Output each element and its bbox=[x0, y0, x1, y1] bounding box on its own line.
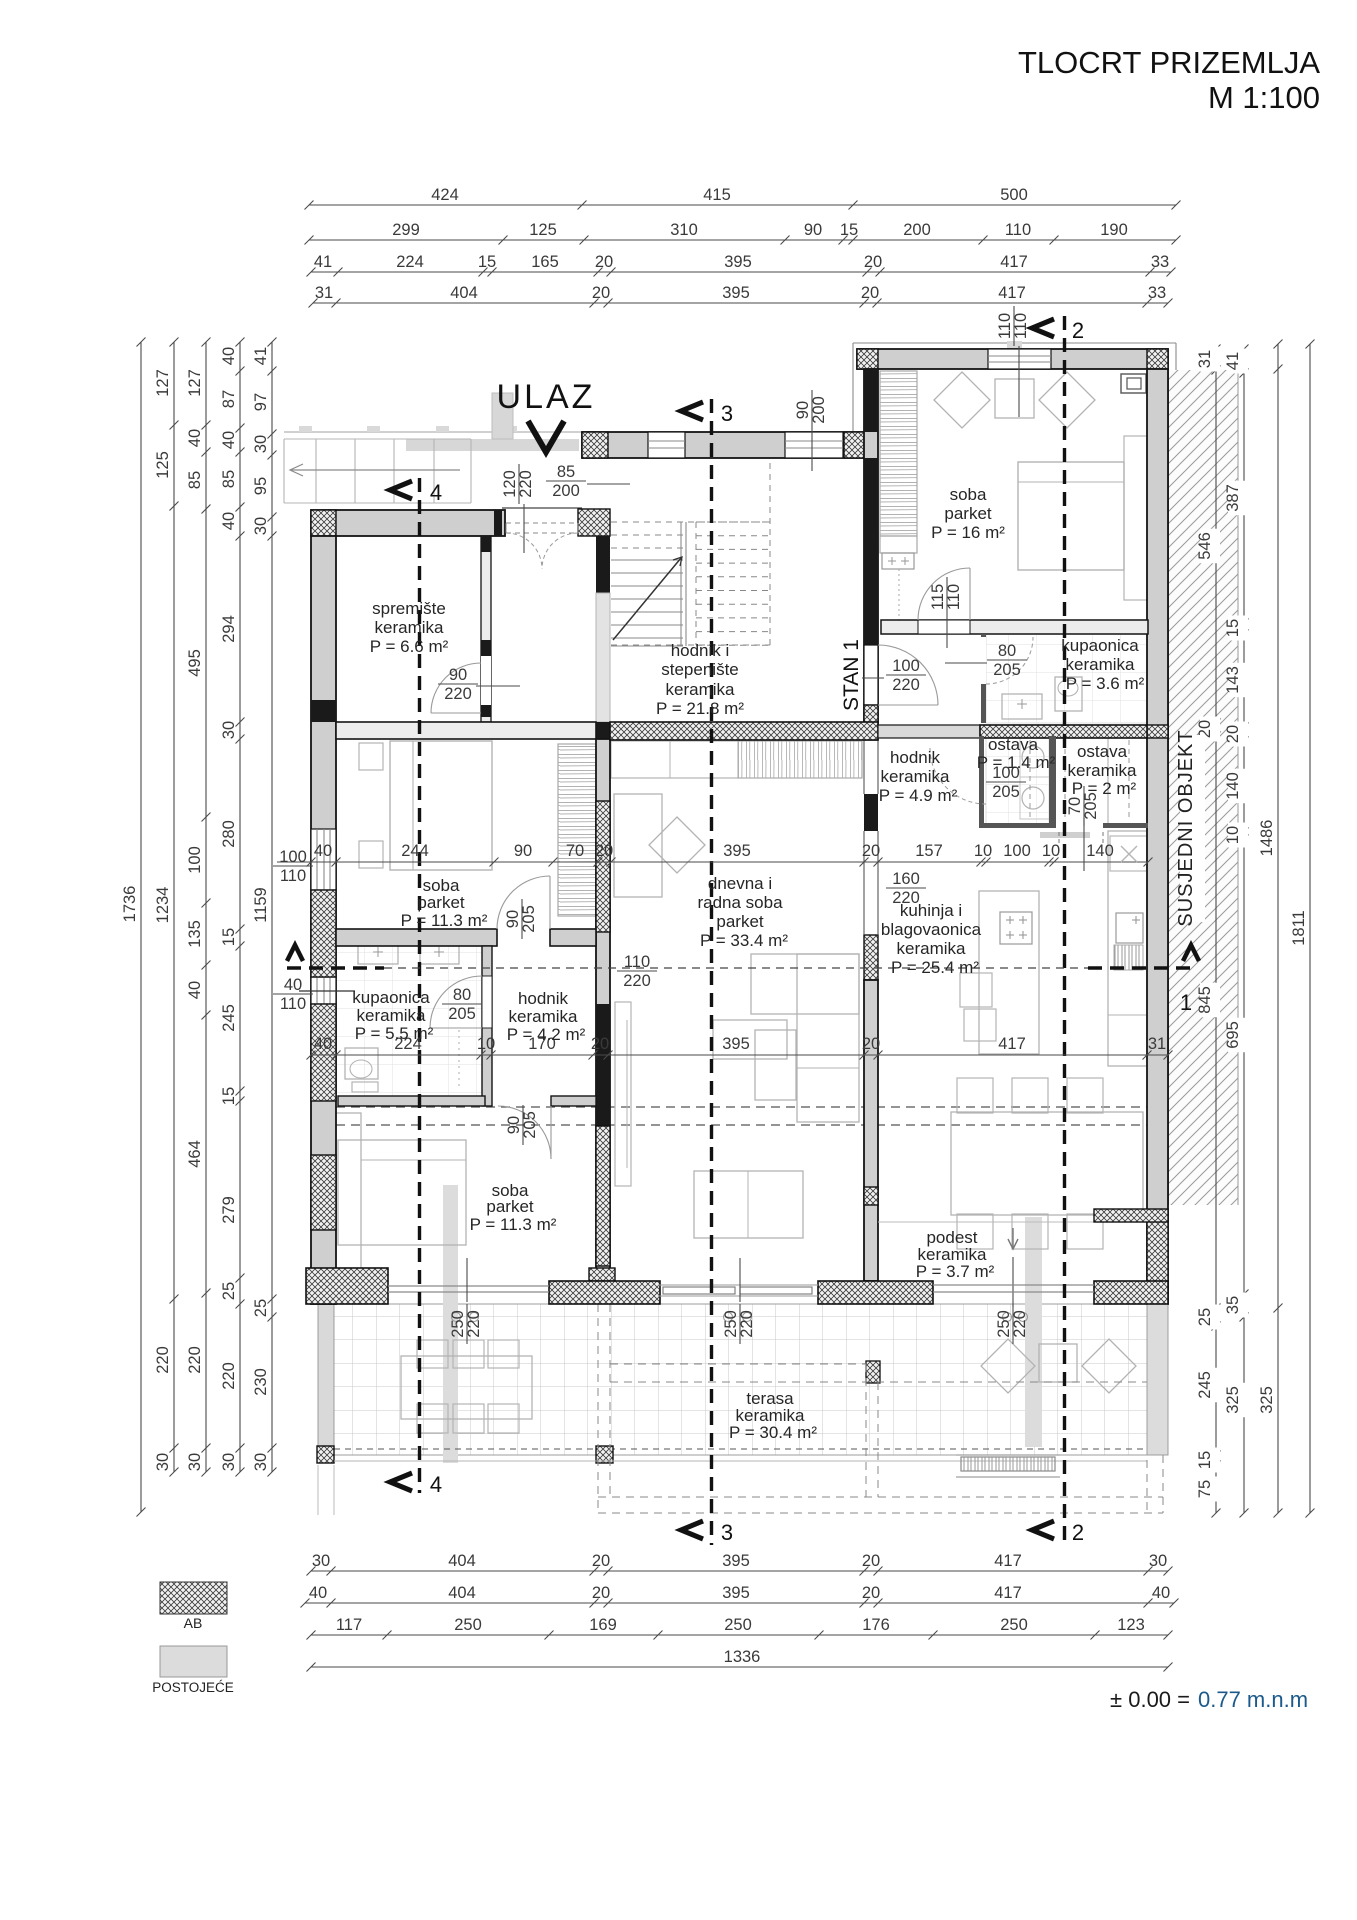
svg-text:blagovaonica: blagovaonica bbox=[881, 920, 982, 939]
svg-text:143: 143 bbox=[1224, 666, 1242, 694]
svg-text:20: 20 bbox=[591, 1035, 609, 1053]
svg-text:40: 40 bbox=[220, 347, 238, 365]
wardrobe soba 16 bbox=[880, 371, 917, 536]
entrance upper wall with windows bbox=[582, 432, 870, 458]
svg-text:110: 110 bbox=[624, 953, 650, 971]
svg-text:25: 25 bbox=[220, 1282, 238, 1300]
svg-text:ostava: ostava bbox=[988, 735, 1039, 754]
svg-text:310: 310 bbox=[670, 221, 698, 239]
svg-text:15: 15 bbox=[1224, 619, 1242, 637]
svg-text:1336: 1336 bbox=[724, 1648, 761, 1666]
svg-text:220: 220 bbox=[892, 676, 920, 694]
susjedni objekt hatched band bbox=[1168, 370, 1238, 1205]
shower kupaonica 5.5 bbox=[352, 1082, 378, 1092]
svg-text:424: 424 bbox=[431, 186, 459, 204]
svg-text:845: 845 bbox=[1196, 986, 1214, 1014]
door soba11.3 lower bbox=[498, 1106, 551, 1159]
eaves outline STAN1 bbox=[853, 342, 1176, 344]
armchair dnevna bbox=[755, 1030, 796, 1100]
svg-text:soba: soba bbox=[950, 485, 987, 504]
svg-text:P = 3.7 m²: P = 3.7 m² bbox=[916, 1262, 995, 1281]
svg-text:1486: 1486 bbox=[1258, 820, 1276, 857]
svg-text:P = 6.6 m²: P = 6.6 m² bbox=[370, 637, 449, 656]
svg-text:1159: 1159 bbox=[252, 887, 270, 922]
svg-text:P = 25.4 m²: P = 25.4 m² bbox=[891, 958, 979, 977]
section marker 1 right bbox=[1183, 945, 1199, 961]
wall: spremiste top bbox=[311, 510, 505, 536]
svg-text:kuhinja i: kuhinja i bbox=[900, 901, 962, 920]
kitchen counter right bbox=[1108, 831, 1147, 1066]
svg-text:30: 30 bbox=[252, 517, 270, 535]
internal dim line 2 bbox=[311, 1054, 1168, 1056]
wall: kuhinja bottom AB bbox=[1094, 1209, 1168, 1222]
svg-text:135: 135 bbox=[186, 920, 204, 948]
svg-text:25: 25 bbox=[252, 1299, 270, 1317]
svg-text:404: 404 bbox=[450, 284, 478, 302]
svg-text:SUSJEDNI OBJEKT: SUSJEDNI OBJEKT bbox=[1175, 729, 1197, 926]
podest down arrow bbox=[1012, 1228, 1014, 1248]
svg-text:220: 220 bbox=[517, 470, 535, 498]
svg-text:110: 110 bbox=[1012, 313, 1030, 339]
door soba16 bbox=[918, 568, 970, 620]
left dimension chains bbox=[140, 342, 142, 1512]
svg-text:kupaonica: kupaonica bbox=[352, 988, 430, 1007]
svg-text:parket: parket bbox=[944, 504, 992, 523]
svg-text:TLOCRT PRIZEMLJA: TLOCRT PRIZEMLJA bbox=[1018, 45, 1320, 80]
svg-text:395: 395 bbox=[722, 1584, 750, 1602]
wall: STAN1 top bbox=[857, 349, 1168, 369]
svg-text:695: 695 bbox=[1224, 1021, 1242, 1049]
dashed shelves ostava 2 bbox=[1064, 740, 1066, 820]
wall: kupaonica3.6 left bbox=[981, 634, 986, 723]
svg-text:117: 117 bbox=[336, 1616, 362, 1634]
svg-text:404: 404 bbox=[448, 1584, 476, 1602]
svg-text:110: 110 bbox=[1005, 221, 1031, 239]
section marker 2 bottom bbox=[1032, 1521, 1054, 1539]
wardrobe soba 11.3 upper bbox=[558, 744, 596, 916]
svg-text:35: 35 bbox=[1224, 1296, 1242, 1314]
sink kupaonica 3.6 bbox=[1002, 694, 1042, 719]
svg-text:keramika: keramika bbox=[666, 680, 736, 699]
svg-text:417: 417 bbox=[998, 1035, 1026, 1053]
entrance steps comb (podest steps) bbox=[961, 1457, 1055, 1471]
TV sideboard dnevna bbox=[615, 1002, 631, 1186]
kupaonica 3.6 tiles bbox=[986, 634, 1147, 723]
svg-text:20: 20 bbox=[592, 284, 610, 302]
svg-text:P = 33.4 m²: P = 33.4 m² bbox=[700, 931, 788, 950]
svg-text:30: 30 bbox=[186, 1453, 204, 1471]
svg-text:220: 220 bbox=[1011, 1310, 1029, 1338]
svg-text:hodnik: hodnik bbox=[518, 989, 569, 1008]
svg-text:parket: parket bbox=[486, 1197, 534, 1216]
svg-text:2: 2 bbox=[1072, 1520, 1084, 1545]
terrace footing post left bbox=[317, 1446, 334, 1463]
bed soba 16 bbox=[1018, 462, 1124, 570]
sinks kupaonica 5.5 bbox=[358, 940, 398, 964]
door kupaonica5.5 bbox=[430, 976, 482, 1028]
wall: spremiste corridor partition bbox=[481, 536, 491, 722]
svg-text:127: 127 bbox=[154, 369, 172, 397]
svg-text:395: 395 bbox=[723, 842, 751, 860]
svg-text:1234: 1234 bbox=[154, 887, 172, 924]
svg-text:20: 20 bbox=[862, 1035, 880, 1053]
svg-text:220: 220 bbox=[220, 1362, 238, 1390]
eaves column post bbox=[866, 1361, 880, 1383]
svg-text:200: 200 bbox=[552, 482, 580, 500]
entrance pier (AB) bbox=[578, 509, 610, 536]
svg-text:395: 395 bbox=[722, 1552, 750, 1570]
svg-text:keramika: keramika bbox=[1066, 655, 1136, 674]
svg-text:0.77 m.n.m: 0.77 m.n.m bbox=[1198, 1687, 1308, 1712]
svg-text:200: 200 bbox=[810, 396, 828, 424]
svg-text:stepenište: stepenište bbox=[661, 660, 739, 679]
svg-text:325: 325 bbox=[1224, 1386, 1242, 1414]
svg-text:100: 100 bbox=[186, 846, 204, 874]
ULAZ arrow V bbox=[528, 421, 564, 452]
svg-text:220: 220 bbox=[154, 1346, 172, 1374]
svg-text:15: 15 bbox=[220, 928, 238, 946]
svg-text:85: 85 bbox=[186, 471, 204, 489]
svg-text:kupaonica: kupaonica bbox=[1061, 636, 1139, 655]
svg-text:30: 30 bbox=[154, 1453, 172, 1471]
svg-text:20: 20 bbox=[595, 842, 613, 860]
svg-text:3: 3 bbox=[721, 1520, 733, 1545]
svg-text:95: 95 bbox=[252, 477, 270, 495]
svg-text:205: 205 bbox=[520, 905, 538, 933]
section marker 3 bottom bbox=[681, 1521, 703, 1539]
svg-text:160: 160 bbox=[892, 870, 920, 888]
svg-text:1811: 1811 bbox=[1290, 910, 1308, 945]
svg-text:hodnik: hodnik bbox=[890, 748, 941, 767]
svg-text:parket: parket bbox=[417, 893, 465, 912]
door spremiste bbox=[431, 663, 481, 713]
svg-text:M 1:100: M 1:100 bbox=[1208, 80, 1320, 115]
svg-text:224: 224 bbox=[396, 253, 424, 271]
svg-text:P = 11.3 m²: P = 11.3 m² bbox=[470, 1215, 557, 1234]
svg-text:keramika: keramika bbox=[375, 618, 445, 637]
svg-text:10: 10 bbox=[1042, 842, 1060, 860]
svg-text:30: 30 bbox=[252, 1453, 270, 1471]
svg-text:2: 2 bbox=[1072, 318, 1084, 343]
svg-text:299: 299 bbox=[392, 221, 420, 239]
svg-text:220: 220 bbox=[738, 1310, 756, 1338]
grey strip podest/terrace right bbox=[1025, 1217, 1042, 1447]
svg-text:169: 169 bbox=[589, 1616, 617, 1634]
svg-text:205: 205 bbox=[992, 783, 1020, 801]
svg-text:87: 87 bbox=[220, 390, 238, 408]
svg-text:100: 100 bbox=[1003, 842, 1031, 860]
svg-text:40: 40 bbox=[314, 842, 332, 860]
svg-text:P = 4.9 m²: P = 4.9 m² bbox=[879, 786, 958, 805]
svg-text:140: 140 bbox=[1224, 772, 1242, 800]
svg-text:325: 325 bbox=[1258, 1386, 1276, 1414]
section line 3 bbox=[710, 399, 713, 1545]
dining table bbox=[951, 1112, 1143, 1215]
svg-text:AB: AB bbox=[184, 1615, 203, 1631]
kupaonica 5.5 tiles bbox=[336, 946, 482, 1096]
svg-text:244: 244 bbox=[401, 842, 429, 860]
svg-text:15: 15 bbox=[478, 253, 496, 271]
svg-text:280: 280 bbox=[220, 820, 238, 848]
desk dnevna bbox=[614, 794, 662, 897]
svg-text:30: 30 bbox=[312, 1552, 330, 1570]
wall: soba16 / kupaonica bbox=[881, 620, 1148, 634]
svg-text:33: 33 bbox=[1151, 253, 1169, 271]
svg-text:41: 41 bbox=[252, 347, 270, 365]
svg-text:205: 205 bbox=[448, 1005, 476, 1023]
svg-text:140: 140 bbox=[1086, 842, 1114, 860]
svg-text:415: 415 bbox=[703, 186, 731, 204]
svg-text:110: 110 bbox=[945, 584, 963, 610]
svg-text:P = 5.5 m²: P = 5.5 m² bbox=[355, 1024, 434, 1043]
svg-text:1736: 1736 bbox=[121, 886, 139, 923]
svg-text:85: 85 bbox=[220, 470, 238, 488]
svg-text:123: 123 bbox=[1117, 1616, 1145, 1634]
svg-text:30: 30 bbox=[220, 1453, 238, 1471]
svg-text:radna soba: radna soba bbox=[697, 893, 783, 912]
svg-text:31: 31 bbox=[315, 284, 333, 302]
svg-text:keramika: keramika bbox=[509, 1007, 579, 1026]
svg-text:ULAZ: ULAZ bbox=[497, 378, 596, 416]
ostava 1.4 tiles bbox=[986, 736, 1049, 825]
svg-text:157: 157 bbox=[915, 842, 943, 860]
svg-text:30: 30 bbox=[252, 435, 270, 453]
x mark bbox=[1121, 846, 1137, 862]
svg-text:90: 90 bbox=[514, 842, 532, 860]
svg-text:100: 100 bbox=[892, 657, 920, 675]
svg-text:90: 90 bbox=[449, 666, 467, 684]
section marker 2 top bbox=[1032, 319, 1054, 337]
svg-text:110: 110 bbox=[280, 995, 306, 1013]
svg-text:546: 546 bbox=[1196, 532, 1214, 560]
svg-text:395: 395 bbox=[724, 253, 752, 271]
stair walk line bbox=[613, 558, 681, 640]
svg-text:495: 495 bbox=[186, 649, 204, 677]
svg-text:97: 97 bbox=[252, 393, 270, 411]
svg-text:165: 165 bbox=[531, 253, 559, 271]
wall: spremiste / soba11.3 bbox=[336, 722, 596, 739]
svg-text:404: 404 bbox=[448, 1552, 476, 1570]
bottom dimension chains bbox=[311, 1570, 1168, 1572]
svg-text:P = 16 m²: P = 16 m² bbox=[931, 523, 1005, 542]
svg-text:20: 20 bbox=[861, 284, 879, 302]
svg-text:110: 110 bbox=[280, 867, 306, 885]
svg-text:ostava: ostava bbox=[1077, 742, 1128, 761]
wall: left outer bbox=[311, 536, 336, 1304]
legend AB bbox=[160, 1582, 227, 1614]
toilet kupaonica 5.5 bbox=[345, 1048, 378, 1079]
section marker 1 left bbox=[287, 945, 303, 961]
svg-text:4: 4 bbox=[430, 480, 442, 505]
wall: soba11.3 bottom bbox=[336, 929, 497, 946]
svg-text:417: 417 bbox=[994, 1552, 1022, 1570]
bottom opening podest bbox=[933, 1284, 1094, 1286]
svg-text:200: 200 bbox=[903, 221, 931, 239]
island hob bbox=[1000, 912, 1032, 944]
svg-text:40: 40 bbox=[1152, 1584, 1170, 1602]
svg-text:41: 41 bbox=[1224, 352, 1242, 370]
wall: bottom with openings bbox=[306, 1268, 388, 1304]
svg-text:keramika: keramika bbox=[1068, 761, 1138, 780]
entrance double door bbox=[506, 533, 542, 569]
svg-text:40: 40 bbox=[186, 981, 204, 999]
legend POSTOJECE bbox=[160, 1646, 227, 1677]
bottom window left bbox=[388, 1285, 549, 1287]
svg-text:20: 20 bbox=[592, 1584, 610, 1602]
wall: ostava partitions bbox=[979, 736, 984, 826]
svg-text:P = 4.2 m²: P = 4.2 m² bbox=[507, 1025, 586, 1044]
terrace lounge diamonds right bbox=[981, 1339, 1136, 1393]
coffee table dnevna bbox=[713, 1020, 787, 1059]
svg-text:15: 15 bbox=[220, 1087, 238, 1105]
svg-text:20: 20 bbox=[862, 842, 880, 860]
svg-text:hodnik i: hodnik i bbox=[671, 641, 730, 660]
door STAN1 entry bbox=[878, 645, 938, 705]
svg-text:33: 33 bbox=[1148, 284, 1166, 302]
svg-text:417: 417 bbox=[994, 1584, 1022, 1602]
terrace tiled slab bbox=[318, 1304, 1148, 1455]
door kupaonica3.6 bbox=[986, 637, 1033, 684]
svg-text:keramika: keramika bbox=[881, 767, 951, 786]
floor above outline dashed lines bbox=[336, 1106, 1147, 1108]
washer circles ostava 1.4 bbox=[1020, 735, 1051, 777]
svg-text:20: 20 bbox=[862, 1584, 880, 1602]
svg-text:100: 100 bbox=[279, 848, 307, 866]
svg-text:40: 40 bbox=[220, 512, 238, 530]
svg-text:25: 25 bbox=[1196, 1308, 1214, 1326]
svg-text:31: 31 bbox=[1148, 1035, 1166, 1053]
section marker 4 top bbox=[390, 481, 412, 499]
internal dim line 1 bbox=[311, 861, 1148, 863]
staircase dashed upper flight bbox=[611, 452, 770, 645]
svg-text:294: 294 bbox=[220, 615, 238, 643]
svg-text:P = 21.8 m²: P = 21.8 m² bbox=[656, 699, 744, 718]
svg-text:41: 41 bbox=[314, 253, 332, 271]
svg-text:P = 1.4 m²: P = 1.4 m² bbox=[977, 753, 1056, 772]
svg-text:90: 90 bbox=[804, 221, 822, 239]
svg-text:STAN 1: STAN 1 bbox=[840, 639, 863, 711]
svg-text:190: 190 bbox=[1100, 221, 1128, 239]
svg-text:250: 250 bbox=[454, 1616, 482, 1634]
svg-text:230: 230 bbox=[252, 1368, 270, 1396]
wall: right outer bbox=[1147, 369, 1168, 1304]
wall: interior left column lower bbox=[596, 739, 610, 1281]
wall: dnevna/kuhinja bbox=[864, 794, 878, 831]
sideboard + wardrobe hodnik stepeniste bbox=[611, 741, 862, 778]
bottom sliding door dnevna bbox=[658, 1284, 818, 1286]
top dimension chains bbox=[309, 204, 1176, 206]
svg-text:205: 205 bbox=[521, 1111, 539, 1139]
svg-text:417: 417 bbox=[998, 284, 1026, 302]
svg-text:10: 10 bbox=[974, 842, 992, 860]
terrace door pivot circles bbox=[452, 1313, 461, 1322]
terrace table group left bbox=[401, 1340, 532, 1433]
svg-text:20: 20 bbox=[592, 1552, 610, 1570]
wall: right outer lower existing bbox=[1147, 1304, 1168, 1455]
svg-text:245: 245 bbox=[220, 1004, 238, 1032]
svg-text:dnevna i: dnevna i bbox=[708, 874, 772, 893]
toilet kupaonica 3.6 bbox=[1055, 677, 1082, 711]
section line 4 bbox=[418, 478, 421, 1493]
svg-text:P = 2 m²: P = 2 m² bbox=[1072, 779, 1137, 798]
shaft box corner bbox=[1121, 374, 1146, 393]
svg-text:31: 31 bbox=[1196, 350, 1214, 368]
svg-text:parket: parket bbox=[716, 912, 764, 931]
svg-text:spremište: spremište bbox=[372, 599, 446, 618]
desk chair diamond bbox=[649, 817, 705, 873]
svg-text:250: 250 bbox=[724, 1616, 752, 1634]
svg-text:20: 20 bbox=[864, 253, 882, 271]
wall: soba11.3 lower top bbox=[338, 1096, 485, 1106]
label SUSJEDNI OBJEKT rotated bbox=[1180, 735, 1205, 922]
svg-text:80: 80 bbox=[453, 986, 471, 1004]
svg-text:417: 417 bbox=[1000, 253, 1028, 271]
svg-text:P = 11.3 m²: P = 11.3 m² bbox=[401, 911, 488, 930]
podest floor edge bbox=[878, 1221, 1094, 1223]
svg-text:20: 20 bbox=[862, 1552, 880, 1570]
svg-text:4: 4 bbox=[430, 1472, 442, 1497]
svg-text:20: 20 bbox=[595, 253, 613, 271]
svg-text:15: 15 bbox=[840, 221, 858, 239]
sofa dnevna bbox=[751, 954, 859, 1014]
svg-text:127: 127 bbox=[186, 369, 204, 397]
section line 1 horizontal bbox=[287, 966, 384, 969]
nightstand diamonds soba 16 bbox=[934, 372, 990, 428]
svg-text:395: 395 bbox=[722, 1035, 750, 1053]
svg-text:1: 1 bbox=[1180, 990, 1192, 1015]
svg-text:20: 20 bbox=[1224, 725, 1242, 743]
wall: AB band under stair hall bbox=[610, 722, 878, 740]
svg-text:15: 15 bbox=[1196, 1451, 1214, 1469]
svg-text:40: 40 bbox=[220, 431, 238, 449]
door soba11.3 upper bbox=[497, 876, 550, 929]
svg-text:279: 279 bbox=[220, 1196, 238, 1224]
svg-text:80: 80 bbox=[998, 642, 1016, 660]
section marker 3 top bbox=[681, 402, 703, 420]
svg-text:464: 464 bbox=[186, 1140, 204, 1168]
kitchen island bbox=[979, 891, 1039, 1054]
svg-text:395: 395 bbox=[722, 284, 750, 302]
svg-text:125: 125 bbox=[529, 221, 557, 239]
svg-text:85: 85 bbox=[557, 463, 575, 481]
removed-wall grey strip lower soba/terrace bbox=[443, 1185, 458, 1463]
svg-text:30: 30 bbox=[220, 721, 238, 739]
svg-text:40: 40 bbox=[186, 429, 204, 447]
wall: kupaonica5.5 / hodnik bbox=[482, 946, 492, 1106]
svg-text:70: 70 bbox=[566, 842, 584, 860]
svg-text:387: 387 bbox=[1224, 484, 1242, 512]
svg-text:250: 250 bbox=[1000, 1616, 1028, 1634]
bed soba 11.3 lower bbox=[336, 1113, 361, 1273]
svg-text:220: 220 bbox=[444, 685, 472, 703]
svg-text:P = 3.6 m²: P = 3.6 m² bbox=[1066, 674, 1145, 693]
island chairs bbox=[960, 973, 992, 1007]
wall: STAN1 band grey part bbox=[878, 725, 980, 738]
svg-text:205: 205 bbox=[993, 661, 1021, 679]
svg-text:40: 40 bbox=[314, 1035, 332, 1053]
svg-text:10: 10 bbox=[1224, 826, 1242, 844]
section line 2 bbox=[1063, 316, 1066, 1545]
svg-text:30: 30 bbox=[1149, 1552, 1167, 1570]
svg-text:220: 220 bbox=[623, 972, 651, 990]
svg-text:P = 30.4 m²: P = 30.4 m² bbox=[729, 1423, 817, 1442]
svg-text:500: 500 bbox=[1000, 186, 1028, 204]
svg-text:3: 3 bbox=[721, 401, 733, 426]
wall: interior stair/spremiste bbox=[596, 536, 610, 593]
svg-text:keramika: keramika bbox=[357, 1006, 427, 1025]
daybed dnevna bbox=[694, 1171, 803, 1238]
svg-text:keramika: keramika bbox=[897, 939, 967, 958]
